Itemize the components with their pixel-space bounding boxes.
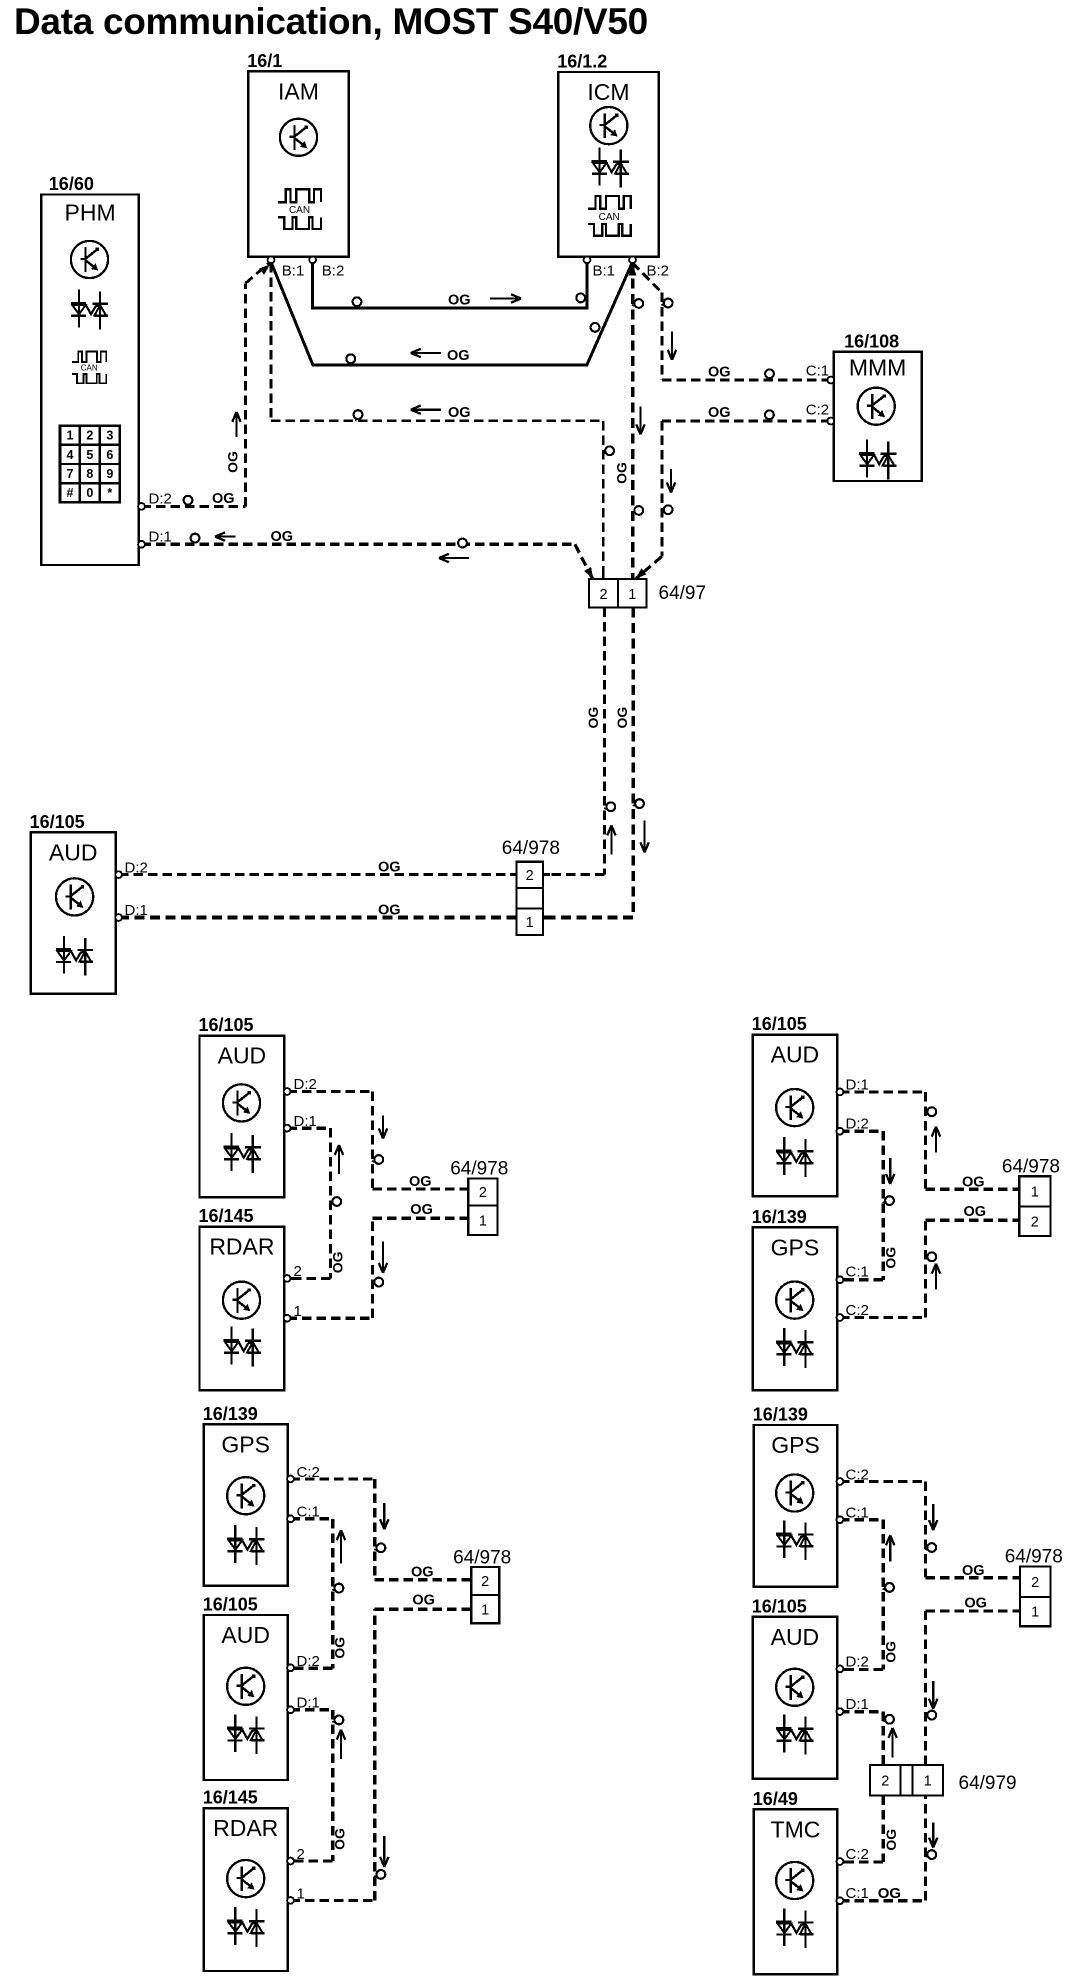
svg-text:64/978: 64/978 <box>453 1548 511 1569</box>
svg-text:64/978: 64/978 <box>502 838 560 859</box>
svg-text:C:1: C:1 <box>846 1505 869 1522</box>
svg-text:2: 2 <box>297 1846 305 1863</box>
svg-text:C:2: C:2 <box>846 1467 869 1484</box>
svg-text:OG: OG <box>412 1592 435 1608</box>
svg-text:D:1: D:1 <box>846 1696 869 1713</box>
svg-text:8: 8 <box>86 467 93 481</box>
svg-text:1: 1 <box>526 915 534 931</box>
svg-text:C:2: C:2 <box>846 1846 869 1863</box>
svg-text:C:2: C:2 <box>297 1464 320 1481</box>
svg-text:16/105: 16/105 <box>30 812 85 832</box>
svg-text:D:1: D:1 <box>294 1113 317 1130</box>
svg-text:C:1: C:1 <box>806 363 829 380</box>
svg-text:2: 2 <box>599 587 607 603</box>
svg-text:C:2: C:2 <box>846 1302 869 1319</box>
svg-text:2: 2 <box>526 868 534 884</box>
svg-text:AUD: AUD <box>221 1622 270 1648</box>
svg-text:OG: OG <box>378 860 401 876</box>
svg-text:OG: OG <box>883 1641 899 1663</box>
svg-text:RDAR: RDAR <box>209 1234 274 1260</box>
svg-text:64/97: 64/97 <box>659 583 707 604</box>
svg-text:RDAR: RDAR <box>213 1815 278 1841</box>
svg-text:5: 5 <box>86 448 93 462</box>
svg-text:OG: OG <box>614 707 630 729</box>
svg-text:OG: OG <box>708 364 731 380</box>
svg-text:OG: OG <box>447 348 470 364</box>
svg-text:TMC: TMC <box>771 1816 821 1842</box>
svg-text:OG: OG <box>378 903 401 919</box>
svg-text:AUD: AUD <box>218 1043 267 1069</box>
svg-text:OG: OG <box>964 1595 987 1611</box>
svg-text:64/978: 64/978 <box>450 1159 508 1180</box>
svg-text:C:1: C:1 <box>846 1885 869 1902</box>
svg-text:7: 7 <box>67 467 74 481</box>
svg-text:OG: OG <box>883 1829 899 1851</box>
svg-text:2: 2 <box>881 1774 889 1790</box>
svg-text:16/105: 16/105 <box>752 1014 807 1034</box>
svg-text:64/978: 64/978 <box>1002 1157 1060 1178</box>
svg-text:OG: OG <box>962 1563 985 1579</box>
svg-text:16/145: 16/145 <box>203 1788 258 1808</box>
svg-text:OG: OG <box>585 707 601 729</box>
svg-text:64/978: 64/978 <box>1005 1547 1063 1568</box>
svg-text:1: 1 <box>479 1213 487 1229</box>
svg-text:OG: OG <box>964 1204 987 1220</box>
svg-text:C:2: C:2 <box>806 402 829 419</box>
svg-text:2: 2 <box>294 1263 302 1280</box>
svg-text:CAN: CAN <box>599 212 620 223</box>
svg-text:B:1: B:1 <box>282 263 305 280</box>
svg-text:D:2: D:2 <box>846 1654 869 1671</box>
svg-text:D:1: D:1 <box>149 529 172 546</box>
svg-text:C:1: C:1 <box>297 1504 320 1521</box>
svg-text:2: 2 <box>1031 1575 1039 1591</box>
svg-text:OG: OG <box>410 1202 433 1218</box>
svg-text:D:2: D:2 <box>125 860 148 877</box>
svg-text:D:1: D:1 <box>125 902 148 919</box>
svg-text:B:2: B:2 <box>647 263 670 280</box>
svg-text:16/49: 16/49 <box>753 1789 798 1809</box>
svg-text:1: 1 <box>924 1774 932 1790</box>
svg-text:AUD: AUD <box>771 1042 820 1068</box>
svg-text:2: 2 <box>1031 1214 1039 1230</box>
svg-text:OG: OG <box>409 1174 432 1190</box>
svg-text:2: 2 <box>479 1185 487 1201</box>
svg-text:AUD: AUD <box>49 839 98 865</box>
svg-text:D:1: D:1 <box>297 1695 320 1712</box>
svg-text:16/105: 16/105 <box>203 1595 258 1615</box>
svg-text:1: 1 <box>481 1602 489 1618</box>
svg-text:CAN: CAN <box>81 364 98 373</box>
svg-text:16/108: 16/108 <box>844 331 899 351</box>
svg-text:D:2: D:2 <box>294 1076 317 1093</box>
svg-text:OG: OG <box>614 462 630 484</box>
svg-text:OG: OG <box>330 1251 346 1273</box>
svg-text:16/139: 16/139 <box>753 1405 808 1425</box>
svg-text:OG: OG <box>878 1885 901 1902</box>
svg-text:C:1: C:1 <box>846 1264 869 1281</box>
svg-text:16/105: 16/105 <box>752 1596 807 1616</box>
svg-text:OG: OG <box>448 293 471 309</box>
svg-text:1: 1 <box>297 1886 305 1903</box>
svg-text:OG: OG <box>271 529 294 545</box>
svg-text:D:2: D:2 <box>846 1116 869 1133</box>
svg-text:16/60: 16/60 <box>49 174 94 194</box>
svg-text:OG: OG <box>883 1247 899 1269</box>
svg-text:16/1: 16/1 <box>247 51 282 71</box>
svg-text:16/139: 16/139 <box>203 1404 258 1424</box>
svg-text:MMM: MMM <box>849 354 906 380</box>
svg-text:64/979: 64/979 <box>959 1773 1017 1794</box>
svg-text:1: 1 <box>1031 1605 1039 1621</box>
svg-text:4: 4 <box>67 448 74 462</box>
svg-text:3: 3 <box>106 429 113 443</box>
svg-text:D:2: D:2 <box>297 1653 320 1670</box>
svg-text:#: # <box>67 486 74 500</box>
svg-text:OG: OG <box>962 1174 985 1190</box>
svg-text:B:1: B:1 <box>593 263 616 280</box>
svg-text:B:2: B:2 <box>322 263 345 280</box>
svg-text:D:2: D:2 <box>149 491 172 508</box>
svg-text:OG: OG <box>708 405 731 421</box>
svg-text:Data communication, MOST S40/V: Data communication, MOST S40/V50 <box>14 1 648 42</box>
svg-text:0: 0 <box>86 486 93 500</box>
svg-text:GPS: GPS <box>771 1432 820 1458</box>
svg-text:ICM: ICM <box>587 79 629 105</box>
svg-text:OG: OG <box>212 491 235 507</box>
svg-text:PHM: PHM <box>65 200 116 226</box>
svg-text:D:1: D:1 <box>846 1077 869 1094</box>
svg-text:16/1.2: 16/1.2 <box>557 52 607 72</box>
svg-text:2: 2 <box>481 1574 489 1590</box>
svg-text:OG: OG <box>225 451 241 473</box>
svg-text:GPS: GPS <box>771 1234 820 1260</box>
svg-text:GPS: GPS <box>221 1431 270 1457</box>
svg-text:16/139: 16/139 <box>752 1207 807 1227</box>
svg-text:2: 2 <box>86 429 93 443</box>
svg-text:1: 1 <box>628 587 636 603</box>
svg-text:16/105: 16/105 <box>199 1015 254 1035</box>
svg-text:IAM: IAM <box>278 78 319 104</box>
svg-text:AUD: AUD <box>771 1624 820 1650</box>
svg-text:1: 1 <box>1031 1184 1039 1200</box>
svg-text:OG: OG <box>448 405 471 421</box>
svg-text:1: 1 <box>294 1303 302 1320</box>
svg-text:6: 6 <box>106 448 113 462</box>
svg-text:16/145: 16/145 <box>199 1206 254 1226</box>
svg-text:OG: OG <box>332 1637 348 1659</box>
svg-text:1: 1 <box>67 429 74 443</box>
svg-text:OG: OG <box>411 1564 434 1580</box>
svg-text:9: 9 <box>106 467 113 481</box>
svg-text:*: * <box>107 486 112 500</box>
svg-text:CAN: CAN <box>289 205 310 216</box>
svg-text:OG: OG <box>332 1828 348 1850</box>
